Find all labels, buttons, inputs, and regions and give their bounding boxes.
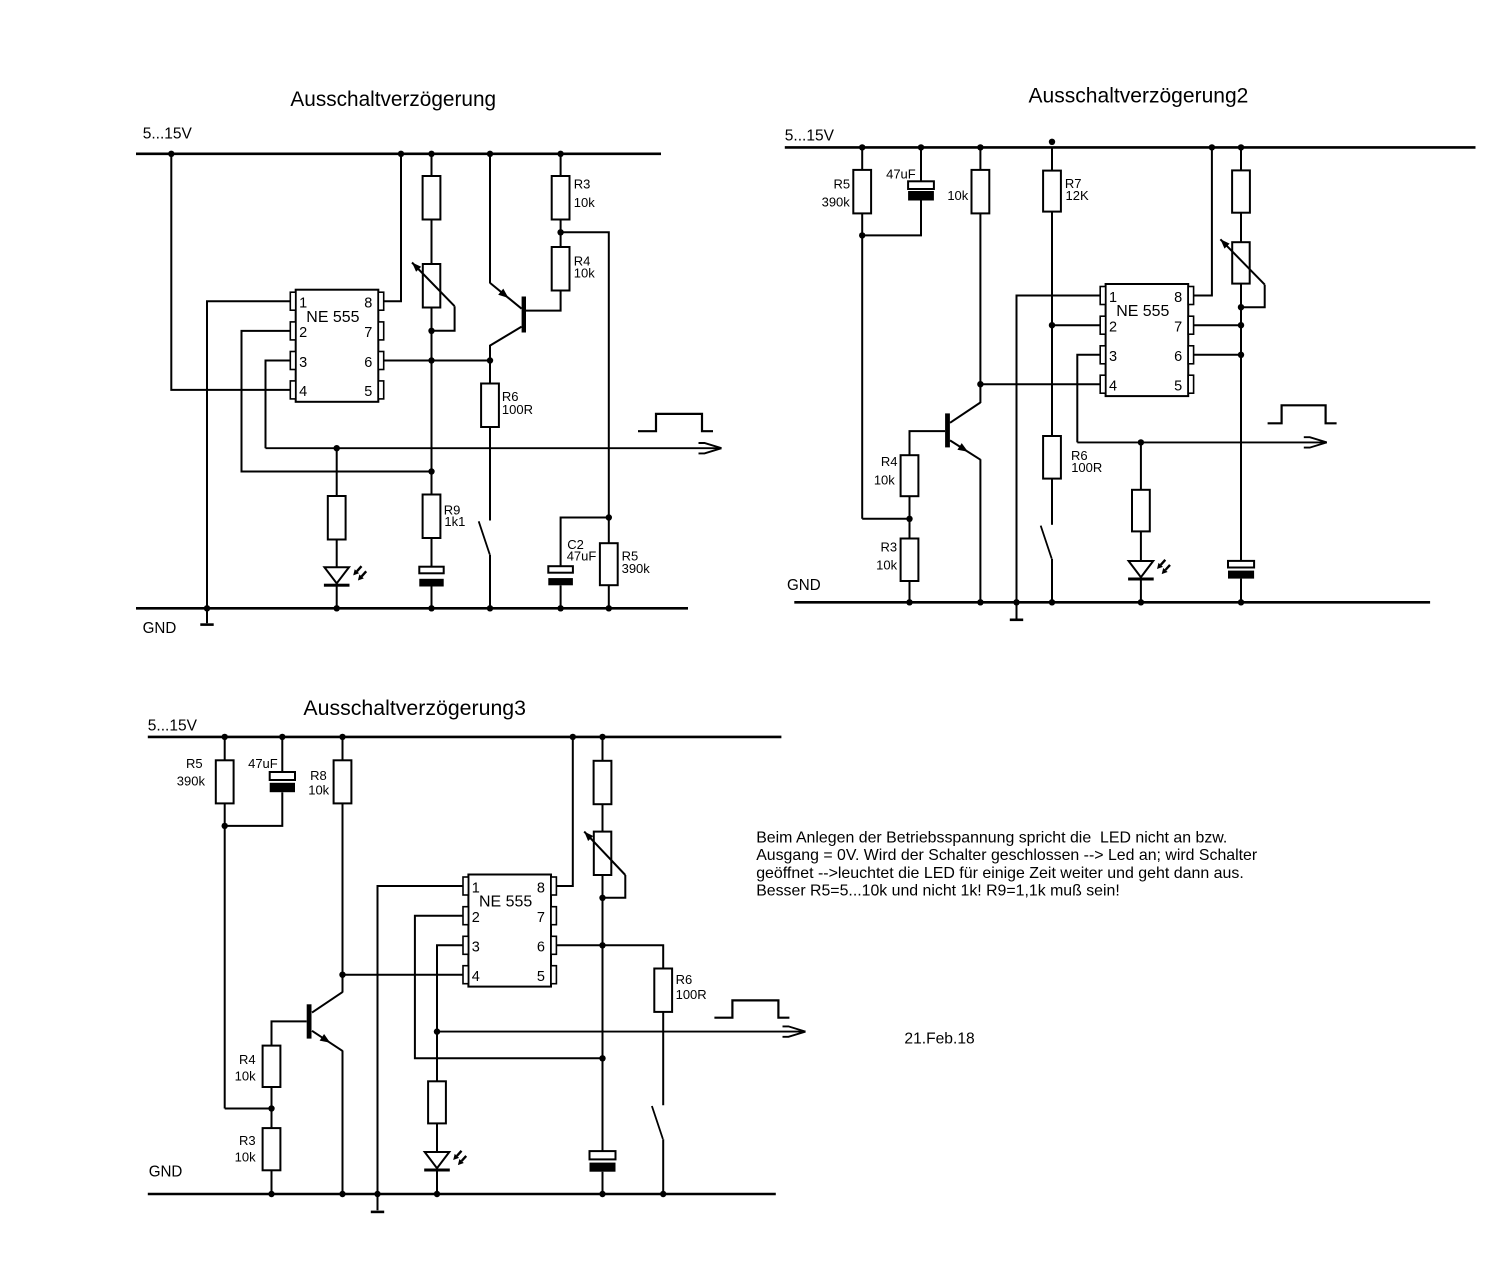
- U2 pin 1 stub: [1100, 287, 1105, 305]
- wire U3 pin 1 to ground (circuit 3): [378, 886, 464, 1210]
- wire rail to resistor above P1 (circuit 1): [431, 154, 433, 176]
- wire U3 pin 2 to timing node (circuit 3): [415, 916, 603, 1059]
- junction dot pin8 riser on rail (circuit 3): [570, 734, 576, 740]
- wire R5 to lower node (circuit 2): [861, 213, 863, 518]
- svg-text:geöffnet -->leuchtet die LED f: geöffnet -->leuchtet die LED für einige …: [756, 865, 1244, 882]
- svg-text:R3: R3: [880, 540, 897, 555]
- pulse waveform symbol (circuit 3): [714, 1000, 789, 1017]
- wire U2 pin 7 to pot chain (circuit 2): [1194, 324, 1241, 326]
- svg-text:6: 6: [1174, 349, 1182, 365]
- junction dot pin4 wire (circuit 3): [339, 972, 345, 978]
- resistor R3 (circuit 3): [263, 1128, 281, 1170]
- junction dot rail/P1 chain (circuit 1): [428, 151, 434, 157]
- svg-text:7: 7: [537, 910, 545, 926]
- U3 pin 3 stub: [463, 936, 468, 954]
- wire C2 to GND (circuit 1): [560, 585, 562, 608]
- switch S3 lever (circuit 3): [652, 1106, 663, 1139]
- svg-text:R5: R5: [833, 176, 850, 191]
- wire R5 to lower node (circuit 3): [224, 803, 226, 1108]
- svg-text:R8: R8: [310, 768, 327, 783]
- svg-text:4: 4: [472, 969, 480, 985]
- wire U3 pin 6 to R6 (circuit 3): [556, 945, 663, 968]
- op-amp/timer IC U2 NE 555 body: [1106, 284, 1189, 396]
- wire rail to resistor above P2 (circuit 2): [1240, 147, 1242, 170]
- resistor 10k (circuit 2): [972, 170, 990, 214]
- svg-text:10k: 10k: [874, 473, 895, 488]
- svg-text:1k1: 1k1: [444, 514, 465, 529]
- capacitor below R9 (circuit 1): [419, 567, 443, 574]
- transistor Q2 base bar (circuit 2): [945, 413, 950, 447]
- junction dot Q3 emitter on GND rail (circuit 3): [339, 1191, 345, 1197]
- junction dot pin6/emitter node (circuit 1): [487, 357, 493, 363]
- wire R6 to switch (circuit 3): [662, 1012, 664, 1105]
- Q3 collector diagonal (circuit 3): [312, 992, 343, 1013]
- junction dot R5 on rail (circuit 3): [222, 734, 228, 740]
- wire resistor to LED (circuit 1): [336, 540, 338, 568]
- output line with arrow (circuit 1): [266, 447, 722, 449]
- U2 pin 5 stub: [1188, 375, 1193, 393]
- svg-text:8: 8: [1174, 290, 1182, 306]
- svg-text:47uF: 47uF: [248, 756, 278, 771]
- svg-text:5: 5: [1174, 379, 1182, 395]
- wire P3 wiper to chain (circuit 3): [603, 875, 626, 898]
- svg-text:390k: 390k: [177, 774, 206, 789]
- Q1 base lead to R4 (circuit 1): [526, 291, 561, 311]
- Q1 emitter diagonal with arrow (circuit 1): [490, 283, 522, 309]
- wire LED to GND (circuit 3): [436, 1168, 438, 1194]
- wire rail to 47uF cap (circuit 2): [920, 147, 922, 181]
- resistor R7 (circuit 2): [1043, 171, 1061, 212]
- capacitor 47uF (circuit 2): [908, 181, 934, 189]
- LED D1 (circuit 1): [324, 567, 349, 583]
- wire U3 pin 3 to output line (circuit 3): [437, 945, 463, 1031]
- U1 pin 4 stub: [290, 381, 295, 399]
- svg-text:NE 555: NE 555: [306, 309, 359, 326]
- Q2 emitter diagonal with arrow (circuit 2): [950, 440, 980, 459]
- wire rail to R8 (circuit 3): [342, 737, 344, 760]
- svg-text:100R: 100R: [676, 987, 707, 1002]
- wire 47uF to R5 node (circuit 2): [862, 200, 921, 235]
- junction dot switch on GND rail (circuit 3): [660, 1191, 666, 1197]
- Q3 emitter diagonal with arrow (circuit 3): [312, 1031, 343, 1051]
- resistor R6 (circuit 1): [481, 384, 499, 428]
- op-amp/timer IC U1 NE 555 body: [296, 290, 379, 402]
- resistor R4 (circuit 3): [263, 1046, 281, 1087]
- resistor R5 (circuit 2): [853, 170, 871, 214]
- wire R3 to R4 (circuit 1): [560, 220, 562, 248]
- svg-text:7: 7: [1174, 320, 1182, 336]
- svg-text:100R: 100R: [502, 402, 533, 417]
- resistor R4 (circuit 2): [901, 455, 919, 496]
- svg-text:GND: GND: [149, 1163, 183, 1180]
- transistor Q1 base bar (circuit 1): [522, 297, 526, 333]
- LED D1 light arrows (circuit 1): [357, 566, 362, 571]
- junction dot C2 on GND rail (circuit 1): [557, 605, 563, 611]
- wire P1 bottom through pin6 node down to R9 (circuit 1): [431, 308, 433, 495]
- svg-text:390k: 390k: [622, 561, 651, 576]
- wire R5 to GND (circuit 1): [608, 585, 610, 608]
- switch S2 lever (circuit 2): [1041, 526, 1052, 559]
- wire R3/R4 node to R5 riser (circuit 1): [561, 232, 609, 517]
- resistor (above pot, unlabeled) circuit 2: [1232, 170, 1250, 212]
- wire pin6 node to R6 (circuit 1): [489, 361, 491, 384]
- svg-text:2: 2: [472, 910, 480, 926]
- svg-text:6: 6: [364, 355, 372, 371]
- resistor R3 (circuit 2): [901, 539, 919, 582]
- junction dot R5/cap node (circuit 3): [222, 823, 228, 829]
- svg-text:Ausschaltverzögerung: Ausschaltverzögerung: [290, 87, 496, 111]
- svg-text:R4: R4: [239, 1052, 256, 1067]
- wire R9 to capacitor (circuit 1): [431, 538, 433, 567]
- junction dot R4/R3 node (circuit 2): [906, 516, 912, 522]
- resistor R6 (circuit 2): [1043, 436, 1061, 479]
- wire R6 to switch (circuit 2): [1051, 479, 1053, 525]
- wire node to R5 (circuit 1): [608, 518, 610, 544]
- earth/ground symbol (circuit 3): [371, 1211, 384, 1214]
- svg-text:8: 8: [537, 880, 545, 896]
- junction dot LED on GND rail (circuit 2): [1138, 599, 1144, 605]
- output line with arrow (circuit 3): [437, 1031, 806, 1033]
- wire cap to GND (circuit 2): [1240, 579, 1242, 603]
- svg-text:R3: R3: [239, 1133, 256, 1148]
- LED D3 light arrows (circuit 3): [457, 1151, 462, 1156]
- capacitor (timing, unlabeled) circuit 3: [590, 1151, 616, 1159]
- junction dot pin6 node (circuit 2): [1238, 352, 1244, 358]
- resistor R5 (circuit 3): [216, 760, 234, 803]
- wire U2 pin 6 to pot chain (circuit 2): [1194, 354, 1241, 356]
- earth/ground symbol (circuit 1): [200, 623, 213, 626]
- resistor R4 (circuit 1): [552, 247, 570, 291]
- junction dot pin8 riser on rail (circuit 2): [1209, 144, 1215, 150]
- svg-text:12K: 12K: [1066, 188, 1089, 203]
- U2 pin 7 stub: [1188, 316, 1193, 334]
- svg-text:GND: GND: [787, 577, 821, 594]
- junction dot pot chain on rail (circuit 2): [1238, 144, 1244, 150]
- output arrowhead (circuit 2): [1304, 437, 1327, 442]
- resistor R8 (circuit 3): [334, 760, 352, 803]
- wire capacitor to GND (circuit 1): [431, 587, 433, 609]
- svg-text:6: 6: [537, 940, 545, 956]
- svg-text:4: 4: [299, 384, 307, 400]
- wire U2 pin 2 to R7/R6 node (circuit 2): [1052, 324, 1100, 326]
- wire rail to 10k resistor (circuit 2): [979, 147, 981, 170]
- wire Q2 emitter to GND (circuit 2): [979, 459, 981, 602]
- junction dot LED on GND rail (circuit 3): [434, 1191, 440, 1197]
- U1 pin 7 stub: [378, 322, 383, 340]
- wire resistor to pot P2 (circuit 2): [1240, 213, 1242, 243]
- junction dot output/LED branch (circuit 1): [334, 445, 340, 451]
- wire U1 pin 3 to output line (circuit 1): [266, 361, 291, 449]
- svg-text:5: 5: [537, 969, 545, 985]
- LED series resistor (unlabeled, circuit 1): [328, 496, 346, 540]
- U3 pin 6 stub: [551, 936, 556, 954]
- wire resistor to pot P3 (circuit 3): [602, 804, 604, 831]
- V+ supply rail (circuit 3): [148, 736, 782, 739]
- resistor R6 (circuit 3): [654, 969, 672, 1012]
- svg-text:R4: R4: [881, 454, 898, 469]
- LED D3 (circuit 3): [425, 1152, 450, 1168]
- junction dot pin1 wire on GND rail (circuit 2): [1013, 599, 1019, 605]
- junction dot output/LED branch (circuit 2): [1138, 439, 1144, 445]
- Q3 base lead (circuit 3): [272, 1021, 307, 1045]
- resistor (upper, unlabeled) circuit 1: [423, 176, 441, 220]
- wire LED to GND (circuit 2): [1140, 577, 1142, 602]
- svg-text:Beim Anlegen der Betriebsspann: Beim Anlegen der Betriebsspannung sprich…: [756, 830, 1227, 847]
- junction dot pot chain on rail (circuit 3): [599, 734, 605, 740]
- wire P2 wiper to chain (circuit 2): [1241, 285, 1265, 308]
- V+ supply rail (circuit 2): [785, 146, 1476, 149]
- junction dot pin1 wire on GND rail (circuit 1): [204, 605, 210, 611]
- wire cap to GND (circuit 3): [602, 1172, 604, 1194]
- svg-text:100R: 100R: [1071, 460, 1102, 475]
- wire rail to R7 (circuit 2): [1051, 147, 1053, 170]
- output line with arrow (circuit 2): [1077, 441, 1327, 443]
- wire resistor to LED (circuit 2): [1140, 531, 1142, 561]
- wire R8 down to Q3 collector (circuit 3): [342, 803, 344, 992]
- junction dot LED on GND rail (circuit 1): [334, 605, 340, 611]
- wire R5 node to R4/R3 node (circuit 2): [862, 518, 909, 520]
- output arrowhead (circuit 3): [783, 1026, 806, 1031]
- capacitor 47uF (circuit 3): [270, 772, 295, 780]
- junction dot pin1 wire on GND rail (circuit 3): [374, 1191, 380, 1197]
- capacitor C2 (circuit 1): [548, 566, 573, 573]
- U3 pin 4 stub: [463, 966, 468, 984]
- GND rail (circuit 2): [794, 601, 1430, 604]
- junction dot 47uF on rail (circuit 3): [279, 734, 285, 740]
- junction dot R5 on rail (circuit 2): [859, 144, 865, 150]
- junction dot Q2 emitter on GND rail (circuit 2): [977, 599, 983, 605]
- svg-text:5...15V: 5...15V: [785, 128, 835, 145]
- svg-text:R5: R5: [186, 756, 203, 771]
- svg-text:R3: R3: [574, 176, 591, 191]
- resistor (above pot, unlabeled) circuit 3: [594, 761, 612, 804]
- wire R5 node to R4/R3 node (circuit 3): [225, 1108, 272, 1110]
- junction dot cap on GND rail (circuit 2): [1238, 599, 1244, 605]
- wire rail to resistor above P3 (circuit 3): [602, 737, 604, 761]
- resistor R3 (circuit 1): [552, 176, 570, 220]
- wire U1 pin 1 to ground (circuit 1): [207, 301, 290, 623]
- output arrowhead (circuit 1): [699, 443, 722, 448]
- svg-text:7: 7: [364, 325, 372, 341]
- wire R3 to GND (circuit 3): [271, 1170, 273, 1194]
- junction dot switch on GND rail (circuit 1): [487, 605, 493, 611]
- svg-text:5...15V: 5...15V: [148, 718, 198, 735]
- switch S1 lever (circuit 1): [479, 521, 490, 554]
- svg-text:2: 2: [1109, 320, 1117, 336]
- U3 pin 1 stub: [463, 877, 468, 895]
- junction dot pin7 node (circuit 2): [1238, 322, 1244, 328]
- U2 pin 6 stub: [1188, 346, 1193, 364]
- wire P2 bottom through pins to cap (circuit 2): [1240, 284, 1242, 561]
- pulse waveform symbol (circuit 2): [1268, 405, 1337, 423]
- wire U1 pin 8 to V+ rail (circuit 1): [384, 154, 401, 301]
- wire switch to GND (circuit 2): [1051, 559, 1053, 603]
- V+ supply rail (circuit 1): [136, 153, 661, 156]
- junction dot rail/pin4 wire (circuit 1): [168, 151, 174, 157]
- U2 pin 3 stub: [1100, 346, 1105, 364]
- wire resistor to potentiometer P1 (circuit 1): [431, 220, 433, 265]
- wire output node to LED resistor (circuit 3): [436, 1032, 438, 1082]
- junction dot pin2/R9 node (circuit 1): [428, 468, 434, 474]
- GND rail (circuit 1): [136, 607, 688, 610]
- svg-text:R6: R6: [676, 972, 693, 987]
- svg-text:NE 555: NE 555: [479, 894, 532, 911]
- wire U3 pin 8 to V+ rail (circuit 3): [556, 737, 572, 886]
- earth/ground symbol (circuit 2): [1010, 618, 1023, 621]
- junction dot 10k on rail (circuit 2): [977, 144, 983, 150]
- potentiometer P1 (circuit 1): [423, 264, 441, 308]
- svg-text:47uF: 47uF: [567, 548, 597, 563]
- wire R4 to R3 (circuit 2): [909, 496, 911, 538]
- wire LED to GND (circuit 1): [336, 583, 338, 608]
- Q2 base lead (circuit 2): [910, 431, 946, 455]
- junction dot switch on GND rail (circuit 2): [1049, 599, 1055, 605]
- svg-text:10k: 10k: [308, 783, 329, 798]
- U3 pin 8 stub: [551, 877, 556, 895]
- wire output node to LED resistor (circuit 1): [336, 448, 338, 496]
- wire 47uF to R5 node (circuit 3): [225, 792, 283, 826]
- junction dot R8 on rail (circuit 3): [339, 734, 345, 740]
- junction dot on rail for 47uF (circuit 2): [918, 144, 924, 150]
- wire R3 to GND (circuit 2): [909, 581, 911, 602]
- svg-text:10k: 10k: [574, 195, 595, 210]
- svg-text:10k: 10k: [574, 265, 595, 280]
- junction dot R3 on GND rail (circuit 3): [268, 1191, 274, 1197]
- svg-text:Besser R5=5...10k und nicht 1k: Besser R5=5...10k und nicht 1k! R9=1,1k …: [756, 882, 1120, 899]
- wire U1 pin 6 to emitter node (circuit 1): [384, 360, 490, 362]
- svg-text:5...15V: 5...15V: [143, 125, 193, 142]
- svg-text:3: 3: [299, 355, 307, 371]
- op-amp/timer IC U3 NE 555 body: [468, 875, 551, 987]
- wire Q3 emitter to GND (circuit 3): [342, 1051, 344, 1195]
- svg-text:390k: 390k: [822, 194, 851, 209]
- resistor R9 (circuit 1): [423, 495, 441, 539]
- junction dot pin2 node (circuit 2): [1049, 322, 1055, 328]
- svg-text:Ausschaltverzögerung2: Ausschaltverzögerung2: [1029, 84, 1249, 108]
- LED series resistor (unlabeled, circuit 2): [1132, 490, 1150, 532]
- resistor R5 (circuit 1): [600, 543, 618, 585]
- U1 pin 8 stub: [378, 292, 383, 310]
- wire U2 pin 8 to V+ rail (circuit 2): [1194, 147, 1212, 295]
- U3 pin 7 stub: [551, 907, 556, 925]
- junction dot R5 riser / C2 branch (circuit 1): [606, 514, 612, 520]
- junction dot cap on GND rail (circuit 3): [599, 1191, 605, 1197]
- potentiometer P2 (circuit 2): [1232, 242, 1250, 283]
- junction dot R4/R3 node (circuit 3): [268, 1105, 274, 1111]
- wire switch to GND (circuit 3): [662, 1139, 664, 1194]
- junction dot R5/cap node (circuit 2): [859, 232, 865, 238]
- U1 pin 1 stub: [290, 292, 295, 310]
- junction dot above rail at R7 (circuit 2): [1049, 139, 1055, 145]
- junction dot R3/R4 node (circuit 1): [557, 229, 563, 235]
- LED series resistor (unlabeled, circuit 3): [428, 1081, 446, 1123]
- wire U2 pin 3 to output line (circuit 2): [1077, 355, 1100, 443]
- wire U2 pin 1 to ground (circuit 2): [1017, 296, 1101, 619]
- wire R7 down to R6 (circuit 2): [1051, 212, 1053, 436]
- transistor Q3 base bar (circuit 3): [307, 1004, 312, 1038]
- U1 pin 5 stub: [378, 381, 383, 399]
- U2 pin 2 stub: [1100, 316, 1105, 334]
- wire P3 bottom down to cap (circuit 3): [602, 875, 604, 1151]
- svg-text:21.Feb.18: 21.Feb.18: [904, 1030, 974, 1047]
- GND rail (circuit 3): [148, 1193, 776, 1196]
- wire rail to R3 (circuit 1): [560, 154, 562, 176]
- junction dot R9 cap on GND rail (circuit 1): [428, 605, 434, 611]
- junction dot Q1 riser on rail (circuit 1): [487, 151, 493, 157]
- svg-text:4: 4: [1109, 379, 1117, 395]
- wire rail to R5 (circuit 2): [861, 147, 863, 170]
- svg-text:10k: 10k: [235, 1069, 256, 1084]
- wire P1 wiper to chain (circuit 1): [432, 306, 455, 331]
- junction dot R3 top on rail (circuit 1): [557, 151, 563, 157]
- wire U3 pin 4 to R8/collector node (circuit 3): [343, 974, 464, 976]
- U2 pin 4 stub: [1100, 375, 1105, 393]
- svg-text:GND: GND: [143, 620, 177, 637]
- junction dot pin8 riser on rail (circuit 1): [398, 151, 404, 157]
- LED D2 light arrows (circuit 2): [1161, 560, 1166, 565]
- Q1 collector diagonal (circuit 1): [490, 327, 522, 361]
- U2 pin 8 stub: [1188, 287, 1193, 305]
- svg-text:5: 5: [364, 384, 372, 400]
- wire rail to Q1 emitter (circuit 1): [489, 154, 491, 283]
- wire R4 to R3 (circuit 3): [271, 1087, 273, 1128]
- junction dot pin2/timing chain (circuit 3): [599, 1055, 605, 1061]
- U3 pin 5 stub: [551, 966, 556, 984]
- wire node to C2 (circuit 1): [561, 518, 609, 567]
- wire switch to GND (circuit 1): [489, 555, 491, 609]
- svg-text:3: 3: [1109, 349, 1117, 365]
- junction dot pin6/timing chain (circuit 3): [599, 942, 605, 948]
- Q2 collector diagonal (circuit 2): [950, 403, 980, 423]
- svg-text:10k: 10k: [876, 558, 897, 573]
- junction dot P3 wiper (circuit 3): [599, 895, 605, 901]
- wire rail to R5 (circuit 3): [224, 737, 226, 760]
- svg-text:3: 3: [472, 940, 480, 956]
- wire 10k resistor down to Q2 collector (circuit 2): [979, 213, 981, 403]
- wire R6 to switch (circuit 1): [489, 427, 491, 521]
- U3 pin 2 stub: [463, 907, 468, 925]
- junction dot P1 wiper (circuit 1): [428, 328, 434, 334]
- svg-text:47uF: 47uF: [886, 166, 916, 181]
- svg-text:Ausgang = 0V. Wird der Schalte: Ausgang = 0V. Wird der Schalter geschlos…: [756, 847, 1258, 864]
- svg-text:8: 8: [364, 296, 372, 312]
- svg-text:Ausschaltverzögerung3: Ausschaltverzögerung3: [303, 696, 526, 720]
- junction dot pin4 wire (circuit 2): [977, 381, 983, 387]
- U1 pin 3 stub: [290, 352, 295, 370]
- U1 pin 6 stub: [378, 352, 383, 370]
- wire V+ rail to pin 4 (circuit 1): [171, 154, 290, 390]
- capacitor (timing, unlabeled) circuit 2: [1228, 561, 1254, 568]
- junction dot R5 on GND rail (circuit 1): [606, 605, 612, 611]
- wire U2 pin 4 to Q2 collector node (circuit 2): [980, 383, 1100, 385]
- svg-text:10k: 10k: [947, 188, 968, 203]
- U1 pin 2 stub: [290, 322, 295, 340]
- wire U1 pin 2 to R9 top node (circuit 1): [242, 331, 432, 472]
- svg-text:2: 2: [299, 325, 307, 341]
- junction dot output/LED branch (circuit 3): [434, 1028, 440, 1034]
- svg-text:10k: 10k: [235, 1150, 256, 1165]
- junction dot R3 on GND rail (circuit 2): [906, 599, 912, 605]
- svg-text:NE 555: NE 555: [1116, 303, 1169, 320]
- pulse waveform symbol (circuit 1): [638, 414, 713, 431]
- junction dot pin6/RP chain (circuit 1): [428, 357, 434, 363]
- potentiometer P3 (circuit 3): [594, 832, 612, 875]
- wire rail to 47uF cap (circuit 3): [281, 737, 283, 772]
- junction dot P2 wiper (circuit 2): [1238, 304, 1244, 310]
- wire resistor to LED (circuit 3): [436, 1123, 438, 1152]
- wire output node to LED resistor (circuit 2): [1140, 442, 1142, 489]
- LED D2 (circuit 2): [1129, 561, 1154, 577]
